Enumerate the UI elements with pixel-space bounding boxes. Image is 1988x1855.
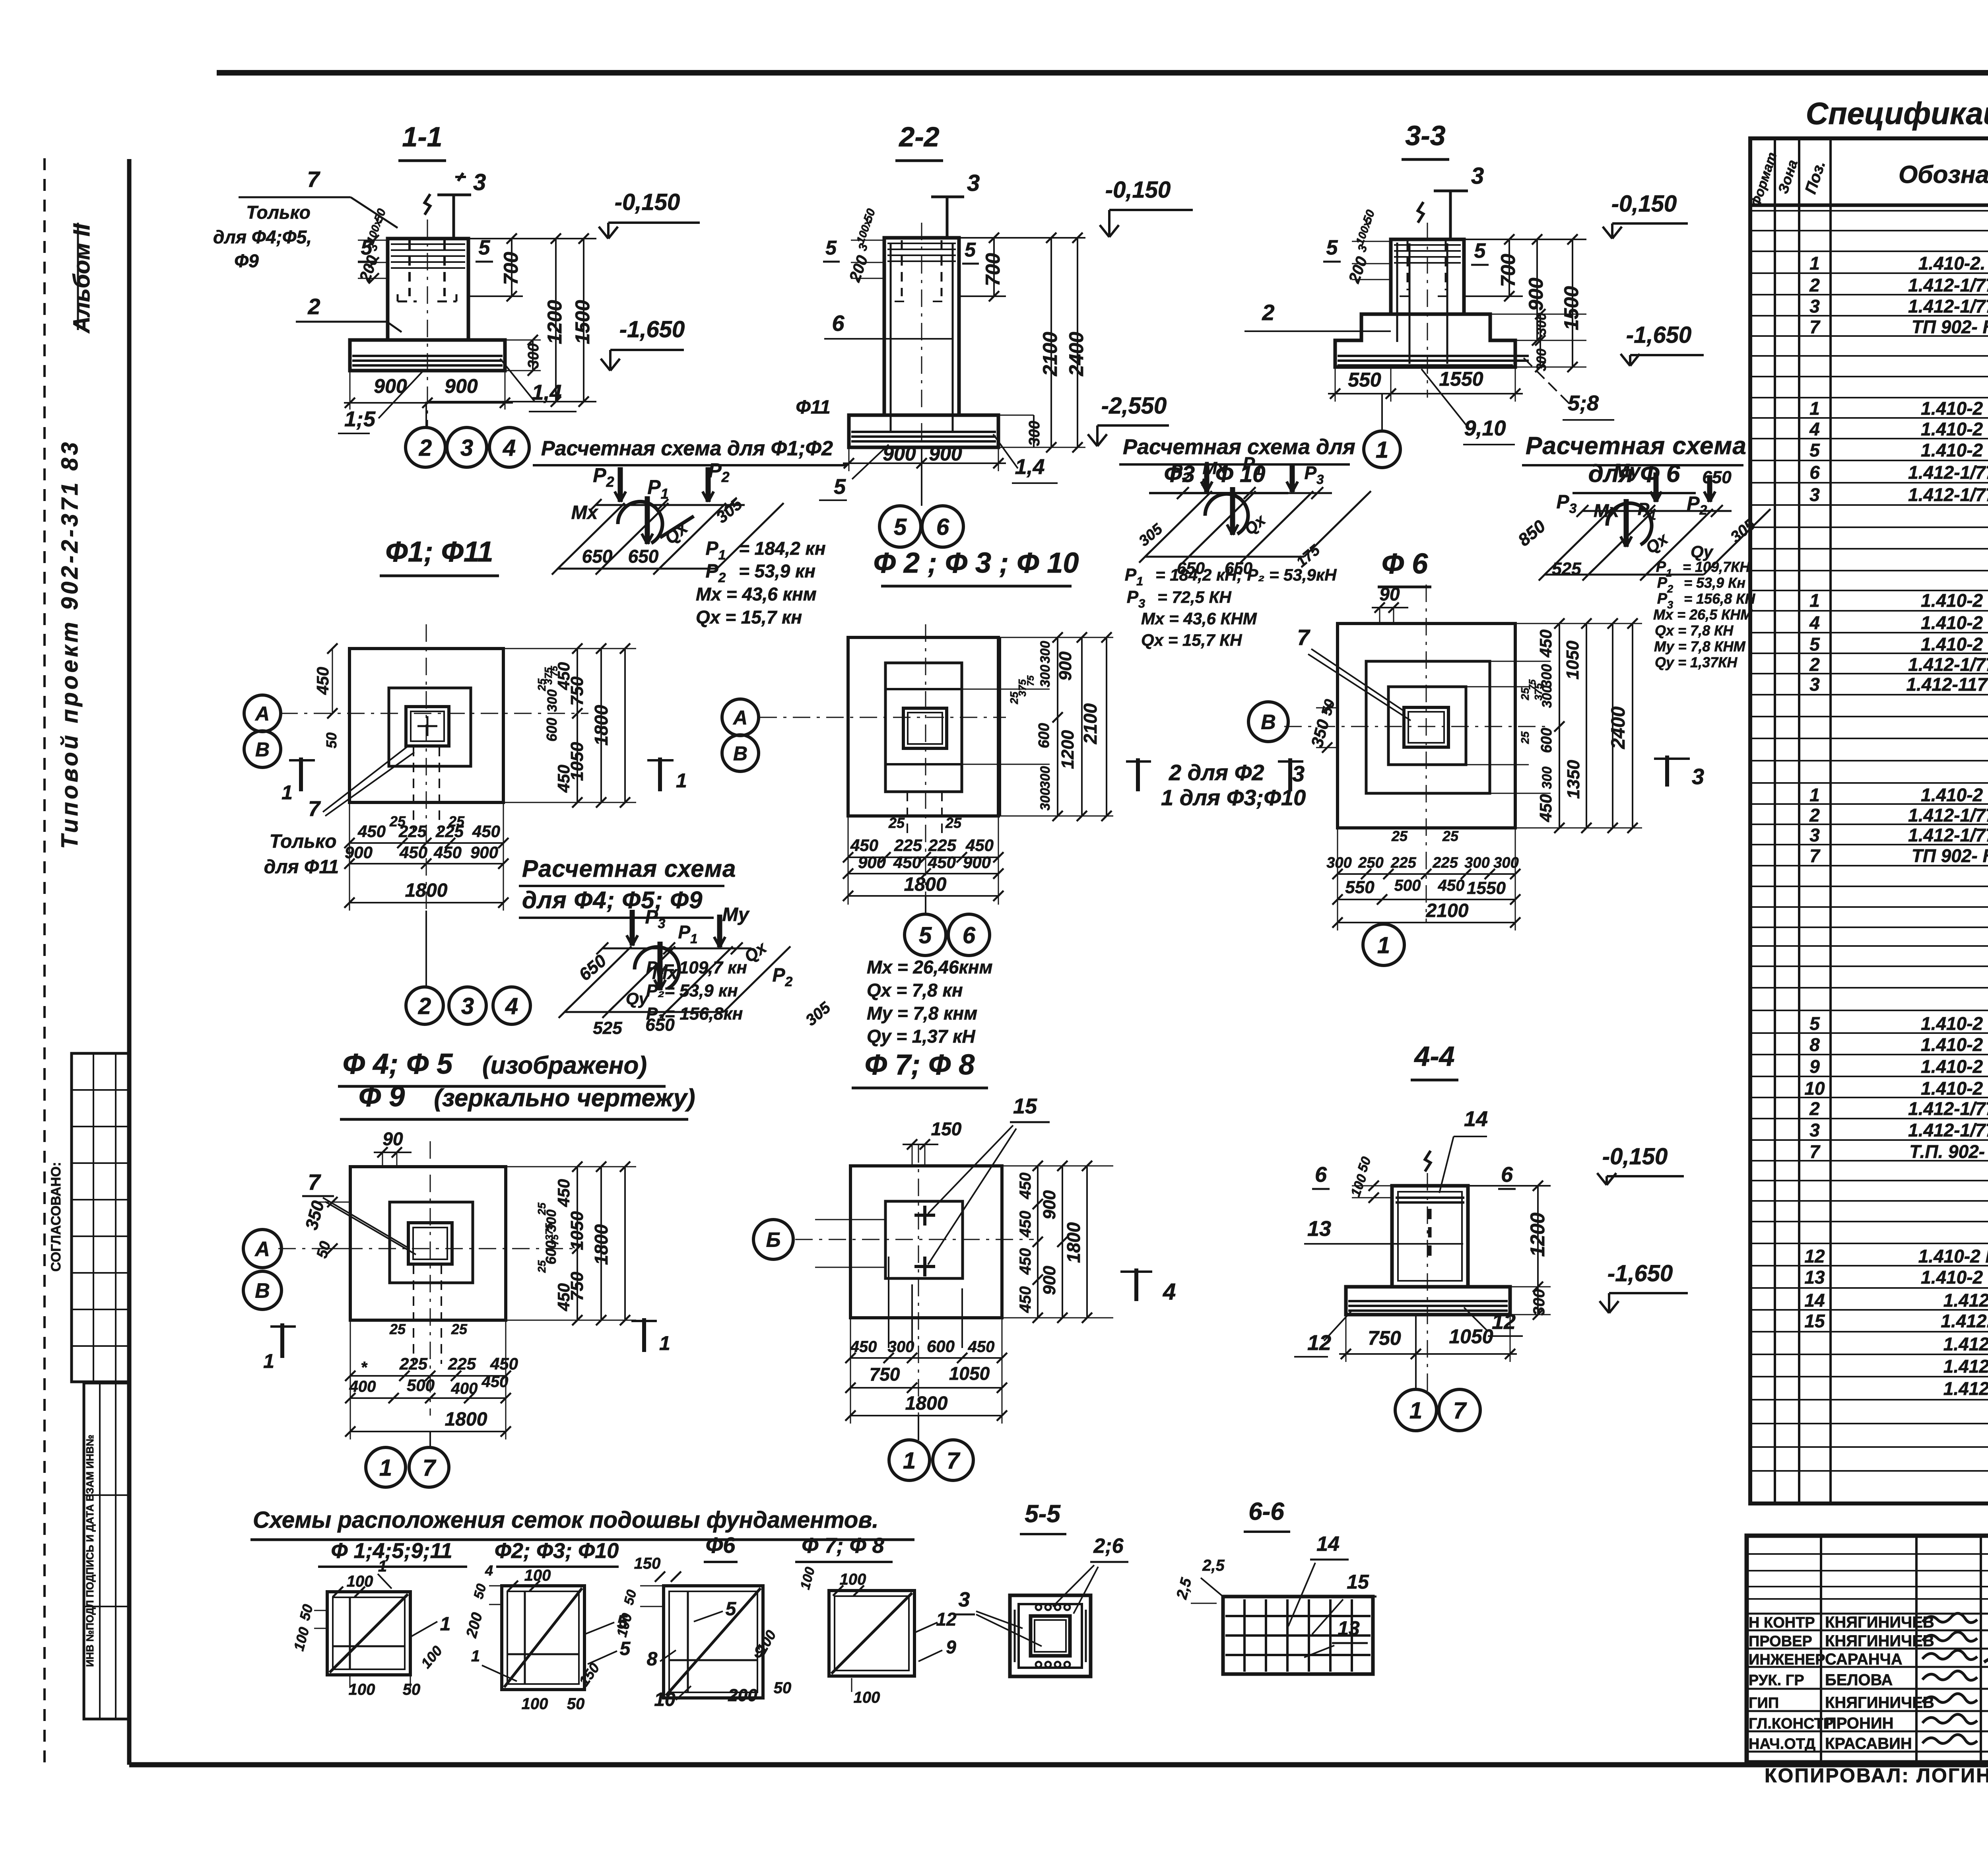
mesh scheme F1-4-5-9-11 — [290, 1558, 450, 1698]
svg-text:1: 1 — [1376, 437, 1388, 463]
section 3-3 bottom dimensions — [1328, 367, 1523, 402]
section 3-3 cut mark 3 — [1434, 163, 1484, 239]
svg-text:700: 700 — [982, 253, 1004, 286]
svg-text:Qу: Qу — [626, 989, 649, 1008]
svg-text:3: 3 — [1692, 764, 1704, 789]
section 1-1 leader 1;5 — [338, 372, 422, 433]
svg-text:900: 900 — [470, 843, 498, 862]
svg-text:3-3: 3-3 — [1405, 120, 1445, 151]
plan F6 left small dims — [1307, 697, 1338, 753]
svg-text:300: 300 — [1534, 313, 1549, 336]
svg-text:1050: 1050 — [567, 742, 587, 781]
svg-text:450: 450 — [1536, 629, 1555, 658]
svg-text:1: 1 — [903, 1448, 916, 1474]
svg-text:РУК. ГР: РУК. ГР — [1749, 1672, 1804, 1689]
section 1-1 mesh labels 5 — [358, 236, 493, 262]
section 2-2 leader 1,4 — [993, 434, 1058, 483]
svg-text:3: 3 — [1809, 825, 1820, 845]
svg-text:4: 4 — [503, 435, 516, 461]
plan F7-F8 axis circle B — [753, 1220, 793, 1259]
plan F1-F11 title — [380, 536, 499, 576]
section 2-2 cut mark 3 — [931, 170, 980, 237]
svg-text:525: 525 — [1552, 559, 1581, 579]
svg-text:13: 13 — [1804, 1267, 1825, 1288]
svg-text:Только: Только — [270, 831, 337, 852]
svg-text:ПРОНИН: ПРОНИН — [1825, 1715, 1894, 1732]
svg-text:2: 2 — [1809, 805, 1820, 826]
svg-text:6: 6 — [1501, 1163, 1513, 1187]
svg-text:Му: Му — [1613, 460, 1641, 482]
section 1-1 note leader 7 — [213, 167, 466, 271]
svg-text:В: В — [255, 1280, 270, 1303]
svg-text:В: В — [1261, 711, 1276, 734]
svg-text:Мх = 26,5 КНМ: Мх = 26,5 КНМ — [1653, 606, 1753, 623]
svg-text:5: 5 — [834, 475, 846, 499]
svg-text:1: 1 — [471, 1647, 480, 1665]
svg-text:3: 3 — [460, 435, 473, 461]
svg-text:1050: 1050 — [1449, 1325, 1493, 1348]
svg-text:-0,150: -0,150 — [1602, 1144, 1668, 1169]
svg-text:Му: Му — [722, 904, 750, 925]
plan F1-F11 grid circles 2 3 4 — [406, 911, 530, 1024]
svg-text:100: 100 — [349, 1681, 375, 1698]
svg-text:1.410-2 Вып.1: 1.410-2 Вып.1 — [1921, 1013, 1988, 1034]
svg-text:400: 400 — [349, 1378, 376, 1395]
svg-text:Qy = 1,37 кН: Qy = 1,37 кН — [867, 1026, 975, 1047]
svg-text:500: 500 — [1394, 877, 1421, 894]
section 2-2 leader 5 — [819, 445, 889, 500]
svg-text:2: 2 — [418, 993, 431, 1019]
svg-text:1: 1 — [440, 1614, 451, 1635]
svg-text:Му = 7,8 КНМ: Му = 7,8 КНМ — [1654, 638, 1746, 655]
svg-text:1200: 1200 — [544, 300, 566, 344]
svg-text:-2,550: -2,550 — [1101, 393, 1167, 419]
svg-text:ГЛ.КОНСТР: ГЛ.КОНСТР — [1749, 1715, 1833, 1732]
plan F1-F11 outline — [349, 649, 503, 802]
detail 6-6 leader 13 — [1304, 1617, 1368, 1657]
calc scheme F4-F5-F9 loads — [646, 957, 993, 1057]
svg-text:-0,150: -0,150 — [1105, 177, 1171, 203]
plan F2-F3-F10 grid circles 5 6 — [905, 896, 990, 956]
detail 6-6 leader 15 — [1312, 1571, 1376, 1634]
svg-text:450: 450 — [433, 843, 462, 862]
svg-text:600: 600 — [1036, 723, 1052, 748]
svg-text:САРАНЧА: САРАНЧА — [1825, 1651, 1903, 1668]
svg-text:2: 2 — [1809, 275, 1820, 295]
section 1-1 bottom dimensions — [344, 371, 513, 410]
section 2-2 footing — [849, 415, 998, 447]
svg-text:Схемы расположения сеток подош: Схемы расположения сеток подошвы фундаме… — [253, 1507, 878, 1533]
svg-text:8: 8 — [1809, 1034, 1820, 1055]
svg-text:Расчетная схема для: Расчетная схема для — [1123, 435, 1355, 459]
plan F6 axis circle B — [1248, 702, 1288, 742]
detail 5-5 drawing — [1010, 1595, 1091, 1676]
svg-text:25: 25 — [451, 1321, 468, 1337]
svg-text:550: 550 — [1348, 369, 1381, 391]
svg-text:25: 25 — [389, 813, 406, 829]
svg-text:12: 12 — [1307, 1331, 1331, 1355]
calc scheme F4-F5-F9 heading — [519, 855, 736, 918]
svg-text:1: 1 — [263, 1350, 274, 1372]
svg-text:1,4: 1,4 — [532, 381, 561, 404]
svg-text:450: 450 — [357, 822, 386, 841]
detail 5-5 leader 2;6 — [1053, 1535, 1128, 1614]
svg-text:300: 300 — [525, 343, 542, 368]
svg-text:Ф 7; Ф 8: Ф 7; Ф 8 — [802, 1534, 884, 1558]
svg-text:5: 5 — [919, 923, 932, 948]
svg-text:900: 900 — [929, 443, 962, 465]
svg-text:1: 1 — [1809, 398, 1820, 419]
svg-text:450: 450 — [893, 853, 921, 872]
left margin inventory stamp — [84, 1383, 129, 1719]
svg-text:1.410-2 Вып.1: 1.410-2 Вып.1 — [1921, 785, 1988, 805]
svg-text:5: 5 — [726, 1599, 737, 1620]
svg-text:В: В — [255, 738, 270, 761]
svg-text:Mx: Mx — [571, 502, 599, 523]
svg-text:5: 5 — [825, 237, 837, 259]
svg-text:25: 25 — [888, 815, 905, 831]
section 3-3 right dimension lines — [1464, 234, 1586, 372]
svg-text:Ф 1;4;5;9;11: Ф 1;4;5;9;11 — [331, 1539, 452, 1563]
svg-text:Qx = 15,7 КН: Qx = 15,7 КН — [1141, 631, 1242, 650]
svg-text:1.410-2 Вып.1: 1.410-2 Вып.1 — [1921, 590, 1988, 611]
plan F7-F8 section marker T4 — [1120, 1268, 1176, 1305]
section 1-1 elevation -0,150 — [599, 189, 700, 239]
section 4-4 leader 14 — [1439, 1107, 1488, 1193]
svg-text:-0,150: -0,150 — [615, 189, 680, 215]
plan F7-F8 bottom dimensions — [845, 1257, 1007, 1424]
svg-text:5: 5 — [1326, 236, 1338, 259]
svg-text:300: 300 — [1038, 665, 1053, 688]
left margin album label — [69, 223, 95, 334]
svg-text:1: 1 — [379, 1455, 392, 1481]
svg-text:300: 300 — [1464, 855, 1489, 871]
section 3-3 ground leader 2 — [1244, 300, 1391, 331]
spec table row lines — [1750, 211, 1988, 1471]
svg-text:= 53,9 Кн: = 53,9 Кн — [1684, 575, 1745, 591]
svg-text:Qx = 7,8 кн: Qx = 7,8 кн — [867, 980, 963, 1000]
svg-text:= 72,5 КН: = 72,5 КН — [1157, 588, 1232, 606]
svg-text:13: 13 — [1338, 1617, 1360, 1639]
svg-text:1-1: 1-1 — [402, 121, 442, 152]
section 4-4 bottom dimensions — [1339, 1315, 1517, 1362]
svg-text:1;5: 1;5 — [344, 407, 376, 431]
svg-text:600: 600 — [1538, 728, 1555, 753]
plan F4-F5 outline — [350, 1167, 506, 1320]
svg-text:6-6: 6-6 — [1248, 1498, 1284, 1525]
svg-text:Мy = 7,8 кнм: Мy = 7,8 кнм — [867, 1003, 977, 1024]
svg-text:1.412-1/77 Вып.3: 1.412-1/77 Вып.3 — [1908, 1098, 1988, 1119]
svg-text:1: 1 — [1809, 590, 1820, 611]
svg-text:900: 900 — [445, 375, 478, 397]
section 3-3 leader 5;8 — [1524, 358, 1614, 420]
svg-text:900: 900 — [1040, 1190, 1059, 1220]
svg-text:= 109,7КН: = 109,7КН — [1683, 559, 1750, 575]
plan F2-F3-F10 section markers — [1126, 758, 1306, 810]
svg-text:300: 300 — [1493, 855, 1518, 871]
svg-text:4: 4 — [1809, 419, 1820, 439]
svg-text:ГИП: ГИП — [1749, 1695, 1779, 1711]
svg-text:2400: 2400 — [1608, 706, 1629, 749]
svg-text:Только: Только — [246, 202, 311, 223]
svg-text:3: 3 — [461, 993, 474, 1019]
plan F6 centerlines — [1284, 585, 1551, 923]
plan F4-F5 right dimensions — [506, 1162, 636, 1325]
svg-text:4: 4 — [1163, 1279, 1176, 1305]
calc scheme F1-F2 loads — [696, 538, 826, 627]
spec table grid — [1750, 138, 1988, 1503]
svg-text:7: 7 — [947, 1448, 961, 1474]
svg-text:2: 2 — [307, 294, 320, 319]
svg-text:Н КОНТР: Н КОНТР — [1749, 1614, 1815, 1631]
svg-text:1: 1 — [1409, 1398, 1422, 1424]
svg-text:15: 15 — [1347, 1571, 1369, 1593]
svg-text:25: 25 — [536, 1202, 548, 1216]
svg-text:650: 650 — [628, 546, 659, 567]
plan F2-F3-F10 right dimensions — [962, 632, 1113, 821]
svg-text:1800: 1800 — [445, 1409, 487, 1430]
svg-text:1800: 1800 — [905, 1393, 948, 1414]
svg-text:Ф6: Ф6 — [706, 1533, 736, 1558]
svg-text:-1,650: -1,650 — [619, 317, 685, 342]
section 2-2 right dimension lines — [922, 233, 1087, 463]
plan F6 section marker T3 — [1654, 756, 1704, 789]
svg-text:1.412-1/77 Вып.3: 1.412-1/77 Вып.3 — [1908, 805, 1988, 826]
svg-text:450: 450 — [313, 667, 332, 695]
svg-text:= 184,2 кН; P₂ = 53,9кН: = 184,2 кН; P₂ = 53,9кН — [1155, 565, 1337, 584]
section 2-2 title — [895, 121, 943, 161]
section 3-3 elevation -0,150 — [1603, 191, 1688, 239]
svg-text:1500: 1500 — [571, 300, 594, 344]
svg-text:550: 550 — [1345, 878, 1375, 897]
svg-text:9,10: 9,10 — [1464, 416, 1506, 440]
plan F7-F8 grid circles 1 7 — [889, 1416, 973, 1480]
svg-text:1.412-1/77 Вып.3: 1.412-1/77 Вып.3 — [1908, 654, 1988, 675]
svg-text:Расчетная схема: Расчетная схема — [522, 855, 736, 882]
section 4-4 footing — [1346, 1287, 1510, 1315]
left margin project label — [57, 439, 83, 849]
section 2-2 leader 6 — [824, 311, 953, 339]
svg-text:3: 3 — [967, 170, 980, 196]
svg-text:650: 650 — [1702, 468, 1732, 487]
svg-text:900: 900 — [1056, 651, 1075, 681]
svg-text:1200: 1200 — [1058, 730, 1077, 769]
svg-text:500: 500 — [407, 1376, 435, 1395]
svg-text:Расчетная схема: Расчетная схема — [1526, 432, 1747, 460]
svg-text:650: 650 — [582, 546, 613, 567]
svg-text:12: 12 — [1492, 1310, 1516, 1334]
section 4-4 leader 13 — [1304, 1217, 1463, 1244]
section 2-2 elevation -0,150 — [1100, 177, 1193, 237]
svg-text:5: 5 — [1809, 634, 1820, 655]
svg-text:300: 300 — [1540, 767, 1555, 789]
svg-text:*: * — [361, 1359, 368, 1376]
svg-text:для Ф4;Ф5,: для Ф4;Ф5, — [213, 227, 312, 247]
plan F4-F5 left small dims — [302, 1197, 350, 1260]
calc scheme F1-F2 sketch — [552, 459, 784, 575]
svg-text:1.412.1-4: 1.412.1-4 — [1943, 1378, 1988, 1399]
svg-text:25: 25 — [389, 1321, 406, 1337]
svg-text:1 для Ф3;Ф10: 1 для Ф3;Ф10 — [1161, 785, 1306, 810]
calc scheme F1-F2 heading — [533, 437, 847, 465]
svg-text:225: 225 — [1432, 855, 1458, 871]
svg-text:300: 300 — [1534, 349, 1549, 371]
svg-text:750: 750 — [567, 676, 587, 706]
plan F7-F8 centerlines — [795, 1145, 1034, 1443]
svg-text:= 53,9 кн: = 53,9 кн — [739, 561, 815, 581]
svg-text:9: 9 — [754, 1642, 764, 1661]
svg-text:КРАСАВИН: КРАСАВИН — [1825, 1735, 1912, 1752]
svg-text:5: 5 — [1474, 239, 1486, 262]
svg-text:-0,150: -0,150 — [1611, 191, 1677, 217]
svg-text:450: 450 — [399, 843, 427, 862]
svg-text:1.410-2 Вып. 1: 1.410-2 Вып. 1 — [1918, 1246, 1988, 1266]
svg-text:1050: 1050 — [567, 1211, 587, 1250]
svg-text:300: 300 — [1038, 641, 1053, 664]
section 1-1 title — [398, 121, 446, 161]
svg-text:1: 1 — [1809, 253, 1820, 274]
svg-text:450: 450 — [850, 836, 878, 855]
svg-text:2: 2 — [1809, 1098, 1820, 1119]
svg-text:6: 6 — [936, 514, 949, 540]
calc scheme F6 loads — [1653, 559, 1755, 670]
svg-text:Б: Б — [766, 1229, 781, 1252]
svg-text:1350: 1350 — [1564, 760, 1583, 799]
svg-text:450: 450 — [1536, 794, 1555, 822]
plan F4-F5 note leader 7 — [302, 1169, 416, 1255]
section 1-1 grid circles 2 3 4 — [406, 402, 529, 467]
section 4-4 right dimension lines — [1468, 1181, 1551, 1320]
svg-text:А: А — [254, 1238, 270, 1261]
title block copied-by line — [1765, 1762, 1988, 1821]
svg-text:-1,650: -1,650 — [1626, 322, 1691, 348]
svg-text:5-5: 5-5 — [1025, 1500, 1061, 1528]
plan F6 bottom dimensions — [1326, 828, 1520, 930]
svg-text:2100: 2100 — [1080, 703, 1101, 744]
svg-text:700: 700 — [500, 252, 522, 285]
section 4-4 grid circles 1 7 — [1395, 1315, 1480, 1431]
svg-text:2: 2 — [1809, 654, 1820, 675]
svg-text:25: 25 — [536, 1260, 548, 1273]
svg-text:= 156,8 КН: = 156,8 КН — [1684, 590, 1755, 607]
svg-text:В: В — [733, 742, 747, 765]
svg-text:1.412-1/77 Вып.3: 1.412-1/77 Вып.3 — [1908, 825, 1988, 845]
svg-text:Обозначение: Обозначение — [1899, 161, 1988, 188]
svg-text:Ф2; Ф3; Ф10: Ф2; Ф3; Ф10 — [495, 1539, 619, 1563]
svg-text:300: 300 — [1026, 421, 1043, 446]
svg-text:5;8: 5;8 — [1568, 391, 1599, 415]
detail 6-6 drawing — [1223, 1597, 1373, 1674]
svg-text:7: 7 — [1809, 317, 1821, 337]
svg-text:Ф 4; Ф 5: Ф 4; Ф 5 — [343, 1048, 453, 1080]
plan F6 outline — [1338, 624, 1515, 828]
svg-text:300: 300 — [888, 1338, 914, 1356]
svg-text:900: 900 — [1525, 278, 1547, 311]
plan F4-F5 section markers 1 — [263, 1318, 670, 1372]
svg-text:25: 25 — [945, 815, 962, 831]
svg-text:1050: 1050 — [1563, 641, 1582, 680]
section 2-2 elevation -2,550 — [1088, 393, 1169, 446]
plan F7-F8 anchor crosses — [914, 1206, 935, 1276]
svg-text:2400: 2400 — [1065, 332, 1087, 376]
svg-text:400: 400 — [451, 1380, 478, 1397]
svg-text:2100: 2100 — [1426, 900, 1469, 921]
svg-text:КНЯГИНИЧЕВ: КНЯГИНИЧЕВ — [1825, 1614, 1934, 1631]
svg-text:1.410-2 Вып.1: 1.410-2 Вып.1 — [1921, 1267, 1988, 1288]
svg-text:(изображено): (изображено) — [482, 1052, 647, 1079]
detail 5-5 title — [1020, 1500, 1066, 1534]
detail 6-6 title — [1244, 1498, 1290, 1532]
svg-text:2: 2 — [1262, 300, 1274, 325]
svg-text:1.410-2 Вып.1: 1.410-2 Вып.1 — [1921, 1034, 1988, 1055]
svg-text:1: 1 — [282, 781, 293, 804]
svg-text:5: 5 — [479, 236, 491, 259]
mesh scheme F6 label — [704, 1533, 738, 1562]
svg-text:1.412.1-4: 1.412.1-4 — [1943, 1356, 1988, 1377]
svg-text:200: 200 — [728, 1686, 757, 1705]
svg-text:3: 3 — [1471, 163, 1484, 189]
svg-text:СОГЛАСОВАНО:: СОГЛАСОВАНО: — [49, 1162, 64, 1272]
svg-text:P₃= 156,8кн: P₃= 156,8кн — [646, 1004, 743, 1024]
svg-text:6: 6 — [1809, 462, 1820, 483]
svg-text:50: 50 — [323, 732, 340, 748]
svg-text:600: 600 — [927, 1337, 955, 1356]
spec table rows text — [1804, 211, 1988, 1494]
section 3-3 leader 9,10 — [1421, 369, 1515, 445]
svg-text:Спецификация монолитных фундам: Спецификация монолитных фундаментов — [1806, 96, 1988, 131]
plan F4-F5 top dim 90 — [374, 1129, 412, 1167]
svg-text:450: 450 — [968, 1338, 995, 1356]
svg-text:600: 600 — [544, 718, 560, 742]
svg-text:3: 3 — [1809, 484, 1820, 505]
svg-text:для Ф11: для Ф11 — [264, 857, 339, 878]
svg-text:525: 525 — [593, 1018, 622, 1038]
svg-text:Ф 9: Ф 9 — [359, 1081, 405, 1113]
plan F1-F11 section markers 1 — [282, 758, 687, 804]
svg-text:7: 7 — [1453, 1398, 1467, 1424]
svg-text:2 для Ф2: 2 для Ф2 — [1169, 760, 1264, 785]
plan F4-F5 axis circles A B — [243, 1230, 282, 1309]
svg-text:6: 6 — [832, 311, 845, 336]
plan F1-F11 bottom dimensions — [344, 747, 509, 911]
svg-text:7: 7 — [308, 797, 321, 821]
mesh scheme F7-F8 — [798, 1566, 957, 1706]
calc scheme F3-F10 heading — [1119, 435, 1355, 493]
svg-text:150: 150 — [931, 1119, 962, 1139]
svg-text:2,5: 2,5 — [1202, 1557, 1225, 1574]
svg-text:750: 750 — [567, 1272, 587, 1301]
svg-text:7: 7 — [423, 1455, 437, 1481]
svg-text:1: 1 — [659, 1332, 670, 1354]
svg-text:450: 450 — [1017, 1248, 1034, 1275]
svg-text:Ф11: Ф11 — [796, 397, 830, 418]
svg-text:ПРОВЕР: ПРОВЕР — [1749, 1633, 1812, 1650]
section 4-4 cut marks 6 — [1312, 1163, 1516, 1189]
svg-text:(зеркально чертежу): (зеркально чертежу) — [434, 1084, 695, 1112]
plan F7-F8 top dim 150 — [903, 1119, 962, 1166]
svg-text:150: 150 — [634, 1555, 661, 1572]
mesh scheme F1-4-5-9-11 label — [318, 1539, 467, 1567]
svg-text:450: 450 — [965, 836, 994, 855]
svg-text:1.410-2 Вып.1: 1.410-2 Вып.1 — [1921, 1078, 1988, 1099]
section 3-3 title — [1402, 120, 1449, 159]
svg-text:100: 100 — [522, 1695, 548, 1713]
svg-text:3: 3 — [959, 1588, 970, 1611]
svg-text:12: 12 — [936, 1609, 957, 1630]
section 1-1 left small dims — [356, 207, 388, 284]
svg-text:1.412.1-4: 1.412.1-4 — [1943, 1334, 1988, 1354]
plan F1-F11 note leader 7 — [264, 747, 414, 878]
